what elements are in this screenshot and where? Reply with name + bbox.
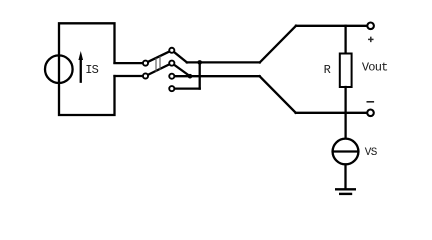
current source IS arrow: [78, 51, 83, 82]
wire R top: [344, 26, 346, 54]
svg-text:Vout: Vout: [362, 61, 388, 75]
label −: [367, 101, 373, 103]
wire node A to throw4 vertical: [199, 62, 201, 88]
wire top net horizontal: [187, 61, 260, 63]
switch pole 1 terminal: [143, 61, 148, 66]
current source IS circle: [45, 55, 73, 83]
terminal −: [367, 110, 374, 117]
switch throw 2 terminal: [169, 61, 174, 66]
wire bottom horizontal to − terminal: [296, 112, 367, 114]
wire bottom diagonal: [260, 76, 296, 113]
svg-text:R: R: [324, 63, 331, 77]
ground: [336, 189, 355, 194]
switch gang linkage: [156, 57, 160, 72]
switch throw 4 terminal: [169, 86, 174, 91]
wire top diagonal: [260, 26, 296, 63]
wire R bottom through bottom net to VS: [344, 87, 346, 138]
node A junction dot: [197, 60, 202, 65]
terminal +: [367, 23, 374, 30]
svg-text:IS: IS: [85, 63, 98, 77]
wire throw2 diagonal: [174, 65, 190, 76]
switch arm 2: [148, 65, 169, 75]
wire throw1 diagonal to top net: [174, 52, 187, 62]
resistor R: [340, 54, 352, 88]
switch throw 3 terminal: [169, 74, 174, 79]
label +: [369, 37, 373, 41]
switch arm 1: [148, 52, 169, 62]
svg-text:VS: VS: [365, 147, 378, 159]
wire VS to ground: [344, 164, 346, 188]
current source IS enclosure box: [59, 23, 115, 115]
switch pole 2 terminal: [143, 73, 148, 78]
wire top horizontal to + terminal: [296, 25, 366, 27]
wire throw3 horizontal: [175, 75, 260, 77]
wire box upper output: [115, 62, 143, 64]
switch throw 1 terminal: [169, 48, 174, 53]
wire box lower output: [115, 75, 143, 77]
voltage source VS: [333, 139, 359, 165]
wire throw4 horizontal: [175, 87, 200, 89]
node B junction dot: [188, 74, 193, 79]
